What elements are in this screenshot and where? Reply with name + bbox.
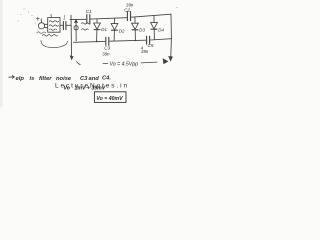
underline sweep wire below mic section [41,40,67,47]
output annotation dash left [103,62,108,64]
top rail wire segment 2 [91,18,127,19]
diode D1 stem top [96,19,98,23]
label under block U1 handwriting [43,35,58,37]
wire mic to box upper [45,23,48,25]
capacitor C5 right plate [149,36,151,44]
annotation arrow line from node A down to caption [70,15,73,58]
svg-text:Vo = 40mV: Vo = 40mV [96,96,123,102]
diode D2 cathode bar [112,29,118,31]
output annotation arrowhead [169,57,172,61]
svg-text:D2: D2 [119,28,125,33]
annotation tail tick [77,62,81,65]
coupling capacitor C6 left plate [62,22,64,30]
svg-text:C1: C1 [86,9,92,14]
svg-text:39n: 39n [141,49,149,54]
capacitor C1 right plate [89,15,91,24]
svg-text:elp: elp [16,76,25,82]
label right of VR1 line2 [82,29,89,30]
diode D4 stem bottom [153,29,155,39]
svg-text:noise: noise [56,76,72,82]
bottom rail wire segment 2 [110,40,146,41]
result box [94,92,126,103]
microphone M1 top lead wire [40,19,42,23]
right side vertical wire [170,14,172,39]
output annotation vertical wire [170,39,173,59]
pencil specks top-left [18,7,178,24]
coupling capacitor C6 right plate [65,22,67,30]
junction dot node C [135,40,137,42]
capacitor C1 left plate [86,15,88,24]
text inside block U1 line2 [49,25,58,26]
variable resistor VR1 body [75,21,77,41]
svg-text:C3: C3 [104,46,110,51]
label right of VR1 line1 [82,23,91,24]
tick above capacitor C6 [63,15,65,19]
svg-text:C5: C5 [148,43,154,48]
output annotation dash right with arrow [141,61,157,64]
microphone M1 body [38,23,44,29]
caption arrow [9,75,15,78]
diode D3 stem bottom [134,30,136,40]
tick above block U1 [50,14,52,17]
label under microphone [37,32,46,34]
text inside block U1 line3 [49,29,56,30]
diode D3 cathode bar [132,29,138,31]
variable resistor VR1 element circle [74,26,78,30]
variable resistor VR1 arrowhead [75,20,78,23]
diode D1 cathode bar [94,29,100,31]
svg-text:D4: D4 [158,28,164,33]
diode D1 stem bottom [96,30,98,42]
top rail wire segment 3 [131,14,171,17]
page left edge shading [0,0,3,107]
capacitor C2 right plate [130,12,132,21]
bottom rail wire segment 1 [74,40,105,43]
diode D2 stem bottom [113,30,115,41]
capacitor C3 right plate [108,37,110,45]
amplifier block U1 box [48,18,60,33]
diode D2 stem top [114,18,116,23]
diode D1 triangle [94,23,101,29]
svg-text:Vo: Vo [64,86,70,92]
svg-text:C2: C2 [124,7,130,12]
top rail wire segment 1 [70,18,86,20]
capacitor C5 left plate [146,36,148,44]
capacitor C2 left plate [126,12,128,21]
svg-text:39n: 39n [102,51,110,56]
svg-text:C3: C3 [80,76,88,82]
wire capacitor C6 to node A [67,24,71,26]
wire mic to box lower [45,26,48,28]
svg-text:and: and [89,76,100,82]
svg-text:Vo = 4.5Vpp: Vo = 4.5Vpp [110,62,139,68]
svg-text:is: is [30,76,36,82]
text inside block U1 line1 [49,21,58,22]
junction dot node B [96,41,98,43]
diode D4 stem top [153,15,155,22]
diode D3 triangle [132,23,139,29]
diode D3 stem top [134,17,136,23]
wire box output [60,24,63,26]
svg-text:D3: D3 [139,28,145,33]
bottom rail wire segment 3 [151,39,172,40]
diode D4 triangle [151,23,158,29]
output annotation small arrowhead right [163,59,167,64]
svg-text:C4.: C4. [102,76,111,82]
diode D2 triangle [111,24,118,30]
diode D4 cathode bar [151,28,157,30]
capacitor C3 left plate [105,37,107,45]
svg-text:1mV + 39mV: 1mV + 39mV [75,85,106,91]
svg-text:D1: D1 [101,27,107,32]
annotation arrowhead [70,56,73,60]
svg-text:filter: filter [39,76,52,82]
microphone M1 plus polarity mark [36,17,39,20]
